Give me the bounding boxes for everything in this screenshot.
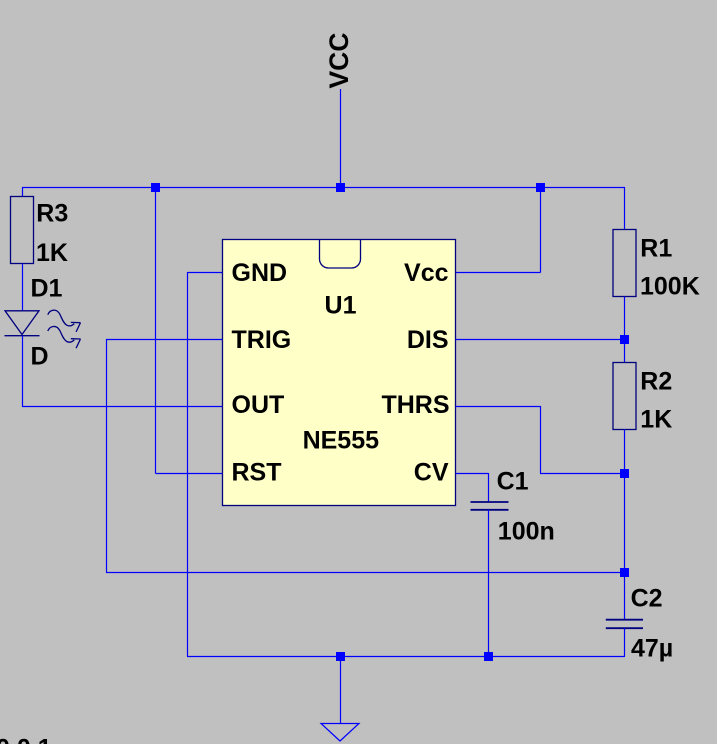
svg-text:CV: CV (414, 459, 449, 487)
svg-text:0 0 1: 0 0 1 (0, 734, 52, 744)
svg-text:OUT: OUT (232, 391, 285, 419)
svg-text:47µ: 47µ (631, 635, 673, 663)
junction THRS node (620, 469, 629, 478)
junction TRIG long wire at right column (620, 568, 629, 577)
resistor R3 (11, 197, 34, 264)
svg-text:D: D (31, 343, 49, 371)
wire left column R3 top (22, 187, 24, 197)
svg-text:THRS: THRS (381, 391, 449, 419)
ground (321, 724, 359, 742)
wire right column top to R1 (624, 187, 626, 230)
wire R1 bottom to R2 top (624, 297, 626, 364)
svg-text:1K: 1K (36, 239, 68, 267)
wire THRS to right column (540, 473, 625, 475)
wire TRIG long horizontal (106, 572, 625, 574)
wire R3 bottom to D1 (22, 264, 24, 312)
svg-text:NE555: NE555 (303, 426, 380, 454)
junction top rail at RST column (151, 183, 160, 192)
svg-text:U1: U1 (325, 292, 357, 320)
junction ground symbol node (336, 652, 345, 661)
wire TRIG horizontal (106, 339, 223, 341)
wire CV horizontal (456, 473, 489, 475)
wire top VCC rail (22, 187, 625, 189)
wire THRS vertical (540, 406, 542, 474)
junction top rail at Vcc pin column (536, 183, 545, 192)
svg-text:Vcc: Vcc (404, 259, 449, 287)
wire THRS horizontal from IC (456, 406, 541, 408)
junction DIS node (620, 335, 629, 344)
wire RST horizontal (156, 473, 223, 475)
capacitor C2 (606, 620, 643, 629)
wire C1 bottom column (488, 510, 490, 657)
svg-text:RST: RST (232, 459, 282, 487)
wire GND pin horizontal (188, 272, 223, 274)
svg-text:R1: R1 (640, 234, 672, 262)
svg-text:DIS: DIS (407, 326, 449, 354)
svg-text:TRIG: TRIG (232, 326, 292, 354)
svg-text:100K: 100K (640, 273, 700, 301)
wire OUT net horizontal (22, 406, 223, 408)
svg-text:D1: D1 (31, 275, 63, 303)
wire Vcc pin horizontal (456, 272, 541, 274)
wire TRIG column (106, 339, 108, 573)
wire Vcc pin column (540, 187, 542, 273)
wire RST column (155, 187, 157, 474)
notch of U1 (320, 240, 361, 269)
wire VCC stub (340, 89, 342, 188)
resistor R1 (613, 230, 636, 297)
junction top rail at VCC stub (336, 183, 345, 192)
svg-text:R3: R3 (36, 200, 68, 228)
junction C1 at ground rail (484, 652, 493, 661)
capacitor C1 (471, 502, 509, 510)
svg-text:C1: C1 (497, 468, 529, 496)
wire C2 bottom (624, 628, 626, 656)
svg-text:VCC: VCC (324, 33, 354, 89)
wire D1 cathode down (22, 336, 24, 407)
wire ground stub (340, 656, 342, 724)
svg-text:100n: 100n (498, 517, 555, 545)
wire CV down to C1 (488, 473, 490, 502)
light arrows of D1 (48, 310, 81, 348)
diode D1 (5, 311, 40, 336)
op-amp-ic U1 NE555 body (223, 240, 456, 506)
wire bottom ground rail (187, 656, 625, 658)
resistor R2 (613, 363, 636, 430)
svg-text:1K: 1K (640, 405, 672, 433)
svg-text:C2: C2 (631, 585, 663, 613)
svg-text:R2: R2 (640, 368, 672, 396)
wire R2 bottom to THRS node (624, 430, 626, 620)
wire GND column (187, 272, 189, 657)
svg-text:GND: GND (232, 259, 288, 287)
wire DIS horizontal (456, 339, 626, 341)
